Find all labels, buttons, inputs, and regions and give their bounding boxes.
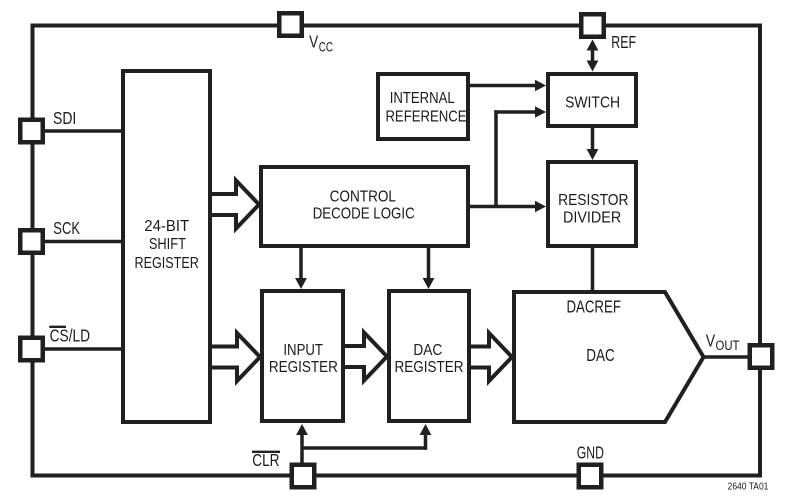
wire CLR branch horizontal to DAC register [302,446,426,450]
svg-text:CS/LD: CS/LD [50,325,91,345]
wire control decode logic to resistor divider [466,205,537,209]
block resistor divider [548,162,636,246]
svg-text:DECODE LOGIC: DECODE LOGIC [313,205,415,222]
block switch [548,74,636,126]
svg-text:SWITCH: SWITCH [565,95,620,112]
wire branch vertical up from control logic output [494,110,498,208]
svg-text:V: V [706,330,716,350]
wire control logic to DAC register [427,244,431,281]
pin square VCC [279,13,302,36]
block input register [262,291,343,421]
svg-text:INTERNAL: INTERNAL [390,90,455,107]
wire CS/LD pin to shift register [30,347,127,351]
svg-text:DAC: DAC [586,345,615,365]
pin square SCK [20,230,43,253]
block control decode logic [261,167,468,246]
svg-text:DIVIDER: DIVIDER [563,210,621,227]
bus arrow DAC register to DAC [471,333,512,381]
svg-text:REF: REF [611,32,636,52]
bus arrow input register to DAC register [345,333,387,381]
svg-text:REFERENCE: REFERENCE [385,108,466,125]
wire SCK pin to shift register [30,240,127,244]
svg-text:REGISTER: REGISTER [395,359,464,376]
pin square REF [581,14,604,37]
wire CLR pin up to input register [300,433,304,466]
pin square GND [579,465,602,488]
block internal reference [378,74,468,139]
svg-text:OUT: OUT [716,338,740,353]
svg-text:SHIFT: SHIFT [149,236,186,253]
overbar on CLR [252,451,280,453]
arrowhead up into REF pin [587,40,599,51]
arrowhead into switch left upper [535,80,546,92]
svg-text:RESISTOR: RESISTOR [558,192,628,209]
svg-text:SCK: SCK [53,218,80,238]
pin square SDI [20,120,43,143]
svg-text:CC: CC [319,39,333,55]
pin square CS/LD [20,338,43,361]
arrowhead into resistor divider top [587,149,599,160]
svg-text:2640 TA01: 2640 TA01 [728,480,769,492]
arrowhead down into switch top [587,61,599,72]
svg-text:INPUT: INPUT [283,342,323,359]
bus arrow shift register to control decode logic [212,181,259,229]
block DAC (pentagon) [514,292,704,422]
arrowhead into DAC register top [423,278,435,289]
svg-text:V: V [309,32,318,52]
arrowhead into input register top [295,278,307,289]
wire CLR branch vertical up to DAC register [424,434,428,450]
arrowhead into resistor divider left [535,201,546,213]
wire branch horizontal into switch lower [494,110,537,114]
block DAC register [389,291,469,421]
pin square VOUT [750,345,773,368]
svg-text:DACREF: DACREF [567,296,621,316]
wire control logic to input register [299,244,303,281]
bus arrow shift register to input register [212,333,260,381]
svg-text:DAC: DAC [413,342,442,359]
pin square CLR [292,465,315,488]
svg-text:24-BIT: 24-BIT [144,218,189,235]
svg-text:SDI: SDI [53,108,76,128]
overbar on CS [49,326,66,328]
wire switch to resistor divider [591,124,595,151]
svg-text:GND: GND [577,443,604,463]
wire REF pin to switch (double arrow) [591,46,595,65]
wire resistor divider to DAC (DACREF net) [591,244,595,294]
wire DAC output to VOUT pin [700,355,760,359]
svg-text:REGISTER: REGISTER [135,255,199,272]
arrowhead into DAC register bottom [420,424,432,435]
wire SDI pin to shift register [30,129,127,133]
arrowhead into switch left lower [535,106,546,118]
arrowhead into input register bottom [296,424,308,435]
wire internal reference to switch [466,84,537,88]
svg-text:REGISTER: REGISTER [269,359,338,376]
svg-text:CONTROL: CONTROL [330,189,396,206]
block 24-bit shift register [123,71,210,422]
